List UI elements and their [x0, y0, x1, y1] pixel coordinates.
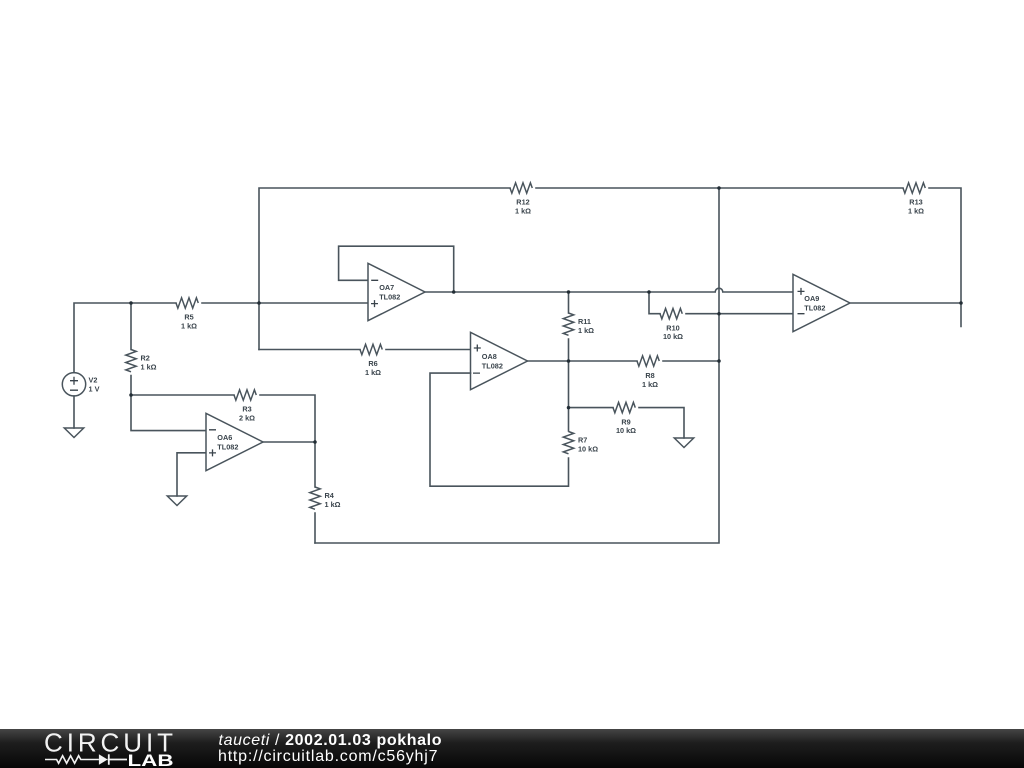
svg-text:TL082: TL082 [379, 293, 400, 302]
resistor R10 [649, 292, 793, 314]
wire OA8 output with R8 [528, 360, 719, 362]
svg-text:1 V: 1 V [89, 385, 100, 394]
svg-text:tauceti / 2002.01.03 pokhalo: tauceti / 2002.01.03 pokhalo [219, 732, 442, 749]
svg-text:LAB: LAB [128, 751, 174, 768]
svg-text:1 kΩ: 1 kΩ [908, 207, 924, 216]
svg-text:R8: R8 [645, 371, 654, 380]
junction dots [129, 301, 133, 305]
resistor R3 and wire to OA6 output node [131, 395, 315, 442]
wire OA7 output to OA9 + (with hop over vertical) [425, 288, 793, 292]
svg-text:R12: R12 [516, 198, 529, 207]
op-amp OA6 [206, 413, 263, 470]
op-amp OA9 [793, 274, 850, 331]
svg-text:R2: R2 [141, 354, 150, 363]
svg-text:1 kΩ: 1 kΩ [515, 207, 531, 216]
wire top feedback net (R12/R13 row) [259, 188, 961, 350]
svg-text:10 kΩ: 10 kΩ [578, 445, 598, 454]
wire OA6 output [263, 441, 315, 443]
svg-text:OA6: OA6 [217, 433, 232, 442]
svg-text:1 kΩ: 1 kΩ [578, 326, 594, 335]
svg-text:R10: R10 [666, 323, 679, 332]
svg-text:TL082: TL082 [482, 362, 503, 371]
wire OA6 non-inverting input to ground [177, 453, 206, 496]
svg-text:R9: R9 [621, 417, 630, 426]
wire bottom return R4 to right vertical [315, 188, 719, 543]
svg-text:10 kΩ: 10 kΩ [616, 426, 636, 435]
wire V2 bottom to ground [73, 396, 75, 428]
svg-text:R3: R3 [242, 405, 251, 414]
svg-text:http://circuitlab.com/c56yhj7: http://circuitlab.com/c56yhj7 [218, 748, 438, 765]
svg-text:10 kΩ: 10 kΩ [663, 332, 683, 341]
svg-text:V2: V2 [89, 376, 98, 385]
resistor R8 [637, 356, 659, 366]
svg-text:1 kΩ: 1 kΩ [365, 368, 381, 377]
resistor R4 [314, 442, 316, 543]
svg-text:R6: R6 [368, 359, 377, 368]
svg-text:1 kΩ: 1 kΩ [325, 500, 341, 509]
resistor R9 [569, 408, 685, 438]
resistor R11 [568, 292, 570, 361]
svg-text:R5: R5 [184, 313, 193, 322]
resistor R2 [130, 303, 132, 395]
svg-text:2 kΩ: 2 kΩ [239, 414, 255, 423]
resistor R13 [903, 183, 925, 193]
svg-text:OA9: OA9 [804, 294, 819, 303]
svg-text:OA8: OA8 [482, 352, 497, 361]
op-amp OA8 [471, 332, 528, 389]
svg-text:R4: R4 [325, 491, 335, 500]
resistor R6 [259, 349, 471, 351]
resistor R7 / OA8 feedback loop [430, 361, 569, 486]
svg-text:R7: R7 [578, 436, 587, 445]
svg-text:TL082: TL082 [217, 443, 238, 452]
ground (OA6 +) [167, 496, 186, 506]
ground (R9) [674, 438, 693, 448]
wire OA9 output [851, 303, 961, 327]
svg-text:1 kΩ: 1 kΩ [141, 363, 157, 372]
op-amp OA7 [339, 246, 454, 292]
svg-text:R11: R11 [578, 317, 591, 326]
svg-text:1 kΩ: 1 kΩ [181, 322, 197, 331]
svg-text:R13: R13 [909, 198, 922, 207]
wire V2 top to R5 row [74, 303, 368, 373]
resistor R5 [176, 298, 198, 308]
resistor R12 [510, 183, 532, 193]
wire OA6 inverting input [131, 395, 206, 431]
svg-text:TL082: TL082 [804, 304, 825, 313]
svg-text:OA7: OA7 [379, 283, 394, 292]
ground (V2) [64, 428, 83, 438]
voltage source V2 [62, 373, 85, 396]
svg-text:1 kΩ: 1 kΩ [642, 380, 658, 389]
